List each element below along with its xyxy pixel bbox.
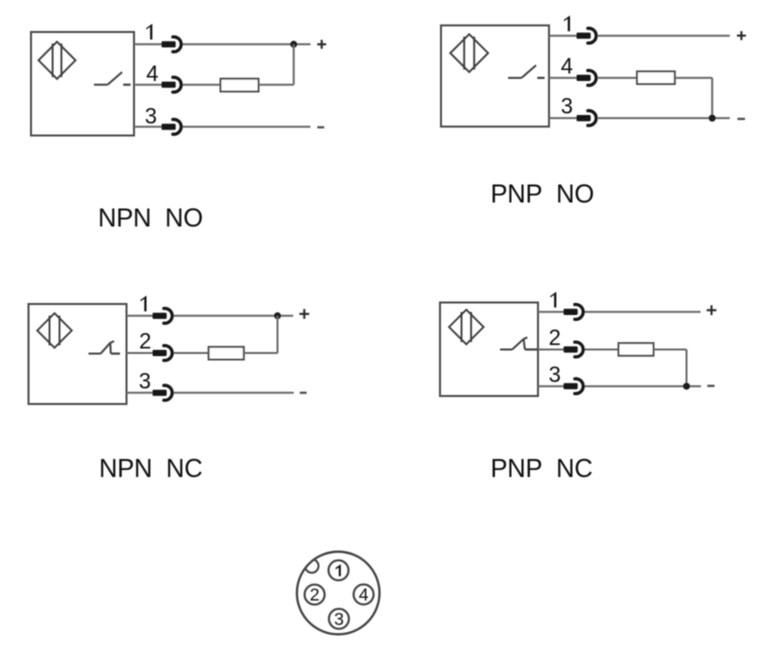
svg-text:3: 3	[334, 609, 344, 629]
svg-text:4: 4	[146, 61, 158, 86]
svg-text:2: 2	[310, 585, 320, 605]
svg-text:3: 3	[561, 94, 573, 119]
svg-text:3: 3	[139, 368, 151, 393]
svg-text:4: 4	[561, 54, 573, 79]
svg-text:4: 4	[359, 585, 369, 605]
svg-text:PNP NC: PNP NC	[491, 455, 593, 483]
svg-text:NPN NO: NPN NO	[98, 204, 203, 232]
svg-text:3: 3	[549, 362, 561, 387]
svg-text:2: 2	[139, 329, 151, 354]
svg-text:PNP NO: PNP NO	[491, 181, 594, 209]
svg-text:3: 3	[145, 104, 157, 129]
svg-text:NPN NC: NPN NC	[99, 455, 202, 483]
svg-text:2: 2	[549, 325, 561, 350]
